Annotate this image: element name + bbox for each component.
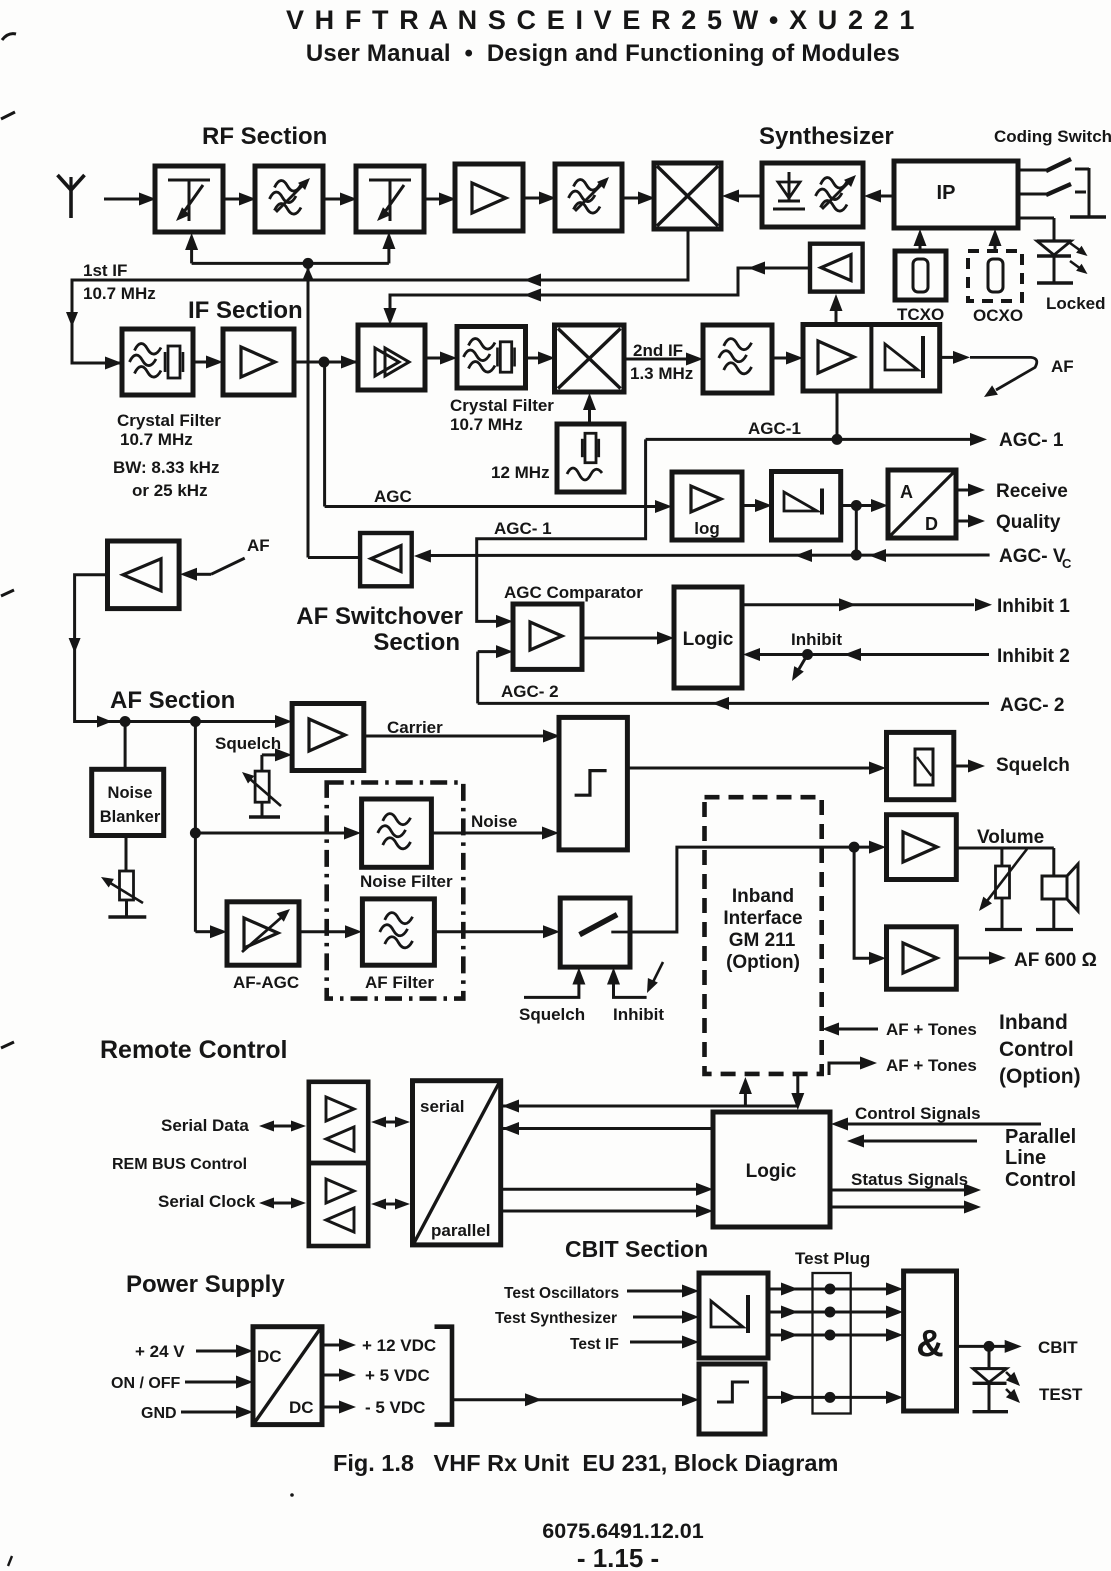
serial/parallel converter (413, 1081, 501, 1245)
junction dot volume branch (849, 842, 860, 853)
wire Test Synthesizer (633, 1311, 699, 1324)
svg-text:Control: Control (999, 1038, 1074, 1061)
wire AF-AGC to AF filter (299, 925, 362, 938)
wire crystal filter1 to IF amplifier (193, 356, 223, 369)
volume amplifier (887, 815, 957, 880)
synthesizer VCO block (varactor + tuned filter) (762, 163, 863, 227)
wire OCXO to IP (989, 229, 1002, 251)
label AGC- Vc (pin) (999, 546, 1072, 571)
svg-text:10.7 MHz: 10.7 MHz (120, 430, 193, 449)
remote logic block (713, 1112, 830, 1227)
svg-text:Inhibit: Inhibit (791, 630, 842, 649)
svg-text:AF + Tones: AF + Tones (886, 1020, 977, 1039)
svg-text:Carrier: Carrier (387, 718, 443, 737)
wire Quality output (956, 515, 985, 528)
wire AGC buffer output to trunk (308, 556, 360, 559)
label 1st IF (83, 261, 127, 280)
svg-text:or 25 kHz: or 25 kHz (132, 481, 208, 500)
label GND (141, 1405, 177, 1422)
inband interface GM 211 (dashed option box) (705, 797, 822, 1074)
ground (loudspeaker) (1036, 928, 1073, 931)
label AGC- 1 (comparator input) (494, 519, 552, 538)
svg-text:AF 600 Ω: AF 600 Ω (1014, 950, 1097, 971)
antenna (58, 175, 85, 218)
label GM 211 (729, 930, 796, 951)
RF amplifier (455, 164, 523, 231)
svg-text:Logic: Logic (683, 629, 734, 650)
wire RF bandpass to RF filter 2 (323, 193, 357, 206)
svg-text:DC: DC (289, 1398, 314, 1417)
wire Inhibit branch (792, 655, 808, 682)
AND gate (904, 1271, 957, 1411)
svg-text:Logic: Logic (746, 1161, 797, 1182)
wire 2nd IF filter to demodulator (772, 352, 803, 365)
label Inhibit (791, 630, 842, 649)
serial driver block A (309, 1082, 368, 1163)
svg-text:Synthesizer: Synthesizer (759, 123, 894, 150)
wire driver B to serial/parallel (371, 1199, 410, 1210)
svg-text:Test Oscillators: Test Oscillators (504, 1285, 619, 1302)
label Interface (723, 908, 802, 929)
label +24V (135, 1342, 185, 1361)
wire Serial Clock (bidirectional) (259, 1198, 306, 1209)
RF image bandpass filter (555, 164, 622, 231)
wire serial box line 4 (501, 1205, 713, 1218)
label +12 VDC (362, 1336, 436, 1355)
svg-text:Remote Control: Remote Control (100, 1036, 288, 1064)
test plug connector (813, 1273, 851, 1414)
serial driver block B (309, 1163, 368, 1246)
wire AF input to switchover buffer (180, 558, 245, 581)
svg-text:- 1.15 -: - 1.15 - (577, 1543, 659, 1571)
supply bracket (435, 1327, 453, 1425)
svg-text:Blanker: Blanker (100, 808, 161, 826)
page number (577, 1543, 659, 1571)
svg-text:AGC: AGC (374, 487, 412, 506)
label 10.7 MHz (filter 1) (120, 430, 193, 449)
wire GND input (181, 1406, 253, 1419)
label AGC (374, 487, 412, 506)
wire inhibit control to switch (607, 968, 647, 998)
svg-text:Noise: Noise (108, 784, 153, 802)
svg-text:IF Section: IF Section (188, 297, 303, 324)
wire demodulator AF output (940, 351, 1037, 397)
svg-text:Power Supply: Power Supply (126, 1271, 285, 1298)
IF double amplifier (358, 325, 425, 390)
svg-text:OCXO: OCXO (973, 306, 1023, 325)
wire +12VDC output (322, 1339, 356, 1352)
svg-text:Squelch: Squelch (996, 755, 1070, 776)
label Squelch (pot) (215, 734, 281, 753)
svg-text:C: C (1062, 556, 1072, 571)
label Serial Data (161, 1116, 249, 1135)
label Test Plug (795, 1249, 870, 1268)
microprocessor IP block (894, 161, 1018, 228)
label Crystal Filter 2 (450, 396, 554, 415)
label Inhibit 1 (pin) (997, 596, 1070, 617)
wire -5VDC output (322, 1401, 356, 1414)
svg-text:TCXO: TCXO (897, 305, 944, 324)
wire carrier output (364, 730, 560, 743)
label Squelch (switch) (519, 1005, 585, 1024)
svg-text:Noise: Noise (471, 812, 517, 831)
svg-text:AGC-1: AGC-1 (748, 419, 801, 438)
label AF output (1051, 357, 1074, 376)
label TEST (1039, 1385, 1083, 1404)
wire AF+Tones output (829, 1057, 877, 1076)
ground (TEST LED) (973, 1410, 1009, 1413)
label CBIT (pin) (1038, 1338, 1078, 1357)
svg-text:BW: 8.33 kHz: BW: 8.33 kHz (113, 458, 219, 477)
label Parallel (1005, 1126, 1076, 1148)
label 10.7 MHz (83, 284, 156, 303)
wire AF trunk vertical (194, 722, 197, 932)
wire +5VDC output (322, 1369, 356, 1382)
AF 600 ohm amplifier (887, 927, 957, 989)
wire image filter to 1st mixer (622, 192, 655, 205)
label Inband (732, 886, 794, 907)
AF mute switch (560, 898, 630, 967)
svg-text:Receive: Receive (996, 481, 1068, 502)
svg-text:AF + Tones: AF + Tones (886, 1056, 977, 1075)
section title Section (373, 629, 460, 656)
svg-text:AGC- 2: AGC- 2 (501, 682, 559, 701)
svg-text:serial: serial (420, 1097, 464, 1116)
wire IF amp1 to double amp (294, 356, 358, 369)
label AGC Comparator (504, 583, 643, 602)
section title RF Section (202, 123, 327, 150)
limiter (772, 472, 841, 541)
wire log amp to limiter (742, 499, 772, 512)
label Squelch (pin) (996, 755, 1070, 776)
wire AGC feedback to RF filters (185, 232, 395, 281)
wire +24V input (196, 1345, 253, 1358)
svg-text:DC: DC (257, 1347, 282, 1366)
label BW 8.33 kHz (113, 458, 219, 477)
coding switch contact 2 (1018, 184, 1086, 195)
squelch level potentiometer (242, 771, 281, 817)
wire trunk AGC buffer up to RF (307, 263, 310, 557)
noise blanker potentiometer (101, 838, 143, 917)
label AF (input) (247, 536, 270, 555)
label 2nd IF (633, 341, 683, 360)
label AF + Tones (in) (886, 1020, 977, 1039)
wire test line 3 (768, 1329, 903, 1342)
wire ON/OFF input (185, 1376, 253, 1389)
svg-text:Volume: Volume (977, 827, 1044, 848)
svg-text:Squelch: Squelch (215, 734, 281, 753)
svg-text:Parallel: Parallel (1005, 1126, 1076, 1148)
svg-text:(Option): (Option) (726, 952, 800, 973)
carrier amplifier (292, 704, 364, 771)
svg-text:AF Filter: AF Filter (365, 973, 434, 992)
svg-text:Serial Data: Serial Data (161, 1116, 249, 1135)
label Noise (471, 812, 517, 831)
svg-text:10.7 MHz: 10.7 MHz (83, 284, 156, 303)
OCXO option (dashed) (968, 251, 1022, 301)
label Line (1005, 1147, 1046, 1169)
svg-text:Test Plug: Test Plug (795, 1249, 870, 1268)
AGC logic block (674, 587, 742, 688)
title: VHF TRANSCEIVER 25 W XU 221 (286, 5, 916, 35)
ground (squelch pot) (249, 815, 280, 818)
svg-text:- 5 VDC: - 5 VDC (365, 1398, 425, 1417)
svg-text:AF: AF (1051, 357, 1074, 376)
junction dot Inhibit (802, 649, 813, 660)
svg-text:AF Section: AF Section (110, 687, 235, 714)
label Inhibit (switch) (613, 1005, 664, 1024)
label Test Oscillators (504, 1285, 619, 1302)
junction dot AGC-1 (832, 434, 843, 445)
svg-text:AGC- 2: AGC- 2 (1000, 695, 1064, 716)
svg-text:Inhibit: Inhibit (613, 1005, 664, 1024)
wire Test IF (630, 1336, 699, 1349)
label AGC- 2 (comparator) (501, 682, 559, 701)
label (Option) (control) (999, 1065, 1081, 1088)
test plug pin 1 (825, 1284, 836, 1295)
label Test IF (570, 1336, 619, 1353)
svg-text:10.7 MHz: 10.7 MHz (450, 415, 523, 434)
wire threshold to squelch detector (627, 762, 886, 775)
noise filter (362, 799, 432, 867)
section title AF Section (110, 687, 235, 714)
wire microprocessor to synthesizer (864, 190, 894, 203)
filter option frame (dash-dot) (327, 783, 464, 999)
svg-text:Crystal Filter: Crystal Filter (450, 396, 554, 415)
label Quality (996, 512, 1061, 533)
section title IF Section (188, 297, 303, 324)
svg-text:Section: Section (373, 629, 460, 656)
wire test line 2 (768, 1306, 903, 1319)
label ON/OFF (111, 1375, 181, 1392)
wire Status Signals 1 (830, 1184, 981, 1197)
wire AGC-2 to comparator (478, 645, 513, 703)
wire 12MHz oscillator to 2nd mixer (583, 393, 596, 424)
A/D converter (888, 470, 956, 538)
ground (volume pot) (985, 928, 1022, 931)
wire noise filter to threshold (431, 827, 559, 840)
svg-text:GM 211: GM 211 (729, 930, 796, 951)
wire RF filter1 to RF bandpass (223, 193, 256, 206)
2nd IF bandpass filter (703, 325, 772, 393)
wire crystal filter2 to 2nd mixer (526, 352, 556, 365)
wire IP to Locked LED (1018, 218, 1054, 241)
section title Remote Control (100, 1036, 288, 1064)
wire to AF-AGC (195, 925, 227, 938)
svg-text:IP: IP (937, 182, 956, 204)
svg-text:parallel: parallel (431, 1221, 491, 1240)
svg-text:AF: AF (247, 536, 270, 555)
label TCXO (897, 305, 944, 324)
wire 2nd mixer to 2nd IF filter (624, 353, 703, 366)
svg-text:+ 12 VDC: + 12 VDC (362, 1336, 436, 1355)
svg-text:AF Switchover: AF Switchover (296, 603, 463, 630)
label Coding Switch (994, 127, 1111, 146)
LED Locked indicator (1037, 241, 1088, 283)
wire Serial Data (bidirectional) (259, 1121, 306, 1132)
svg-text:Line: Line (1005, 1147, 1046, 1169)
test plug pin 2 (825, 1307, 836, 1318)
junction dot IF amp output (319, 357, 330, 368)
svg-text:CBIT Section: CBIT Section (565, 1236, 708, 1262)
wire RF filter2 to RF amplifier (424, 193, 456, 206)
wire 1st mixer to crystal filter (1st IF) (66, 229, 688, 370)
squelch detector (887, 732, 954, 799)
wire limiter to A/D (841, 499, 888, 512)
svg-text:Control Signals: Control Signals (855, 1104, 981, 1123)
wire to AF 600 amplifier (854, 847, 886, 965)
wire Inhibit 2 input (743, 648, 989, 661)
label Carrier (387, 718, 443, 737)
noise blanker (92, 769, 164, 835)
junction dot AF trunk 1 (120, 716, 131, 727)
wire AF 600 output (956, 952, 1006, 965)
svg-text:V H F T R A N S C E I V E R: V H F T R A N S C E I V E R 2 5 W • X U … (286, 5, 916, 35)
test step detector (699, 1364, 765, 1434)
wire to noise filter (195, 827, 361, 840)
section title Synthesizer (759, 123, 894, 150)
section title AF Switchover (296, 603, 463, 630)
label 1.3 MHz (630, 364, 693, 383)
label Control Signals (855, 1104, 981, 1123)
svg-text:Inband: Inband (999, 1011, 1068, 1034)
crystal filter 2 (10.7 MHz) (457, 327, 526, 389)
test plug pin 3 (825, 1330, 836, 1341)
wire CBIT output (957, 1340, 1022, 1353)
coding switch common rail (1070, 168, 1106, 217)
label Volume (977, 827, 1044, 848)
svg-text:12 MHz: 12 MHz (491, 463, 550, 482)
wire AF trunk to noise blanker (124, 722, 127, 770)
wire Test Oscillators (627, 1285, 699, 1298)
svg-text:+ 24 V: + 24 V (135, 1342, 185, 1361)
wire TCXO to IP (914, 229, 927, 251)
wire driver A to serial/parallel (371, 1117, 410, 1128)
svg-text:RF Section: RF Section (202, 123, 327, 150)
wire Control Signals 2 (847, 1135, 977, 1148)
wire Status Signals 2 (830, 1201, 981, 1214)
label Serial Clock (158, 1192, 256, 1211)
wire Squelch output (954, 760, 985, 773)
svg-text:GND: GND (141, 1405, 177, 1422)
label Status Signals (851, 1170, 968, 1189)
label Locked (1046, 294, 1106, 313)
AF-AGC variable gain amplifier (227, 902, 299, 965)
wire inband to serial line (501, 1100, 798, 1113)
wire AGC-2 (478, 697, 989, 710)
wire buffer to IF double amplifier (384, 262, 811, 326)
label OCXO (973, 306, 1023, 325)
svg-text:2nd IF: 2nd IF (633, 341, 683, 360)
wire AF filter to switch (434, 925, 560, 938)
wire AF+Tones input (822, 1023, 878, 1036)
label Control (control) (999, 1038, 1074, 1061)
junction dot CBIT (984, 1341, 995, 1352)
svg-text:Status Signals: Status Signals (851, 1170, 968, 1189)
svg-text:1.3 MHz: 1.3 MHz (630, 364, 693, 383)
caption Fig 1.8 (333, 1450, 838, 1476)
wire RF amplifier to image filter (523, 192, 556, 205)
svg-text:CBIT: CBIT (1038, 1338, 1078, 1357)
svg-text:1st IF: 1st IF (83, 261, 127, 280)
wire demodulator amp to buffer (830, 294, 843, 325)
wire squelch control to switch (524, 968, 585, 998)
svg-text:AGC- 1: AGC- 1 (999, 430, 1064, 451)
RF varactor-tuned filter 2 (356, 166, 424, 232)
document number (542, 1519, 703, 1543)
TCXO crystal oscillator (895, 251, 946, 300)
subtitle: User Manual Design and Functioning of Modules (306, 40, 900, 67)
label AF-AGC (233, 973, 299, 992)
wire AGC-1 branch to comparator (477, 439, 837, 628)
svg-text:AGC- 1: AGC- 1 (494, 519, 552, 538)
wire switchover buffer to AF trunk (69, 575, 292, 728)
IF amplifier 1 (223, 329, 294, 395)
label AGC- 2 (pin) (1000, 695, 1064, 716)
wire AGC-Vc (414, 506, 990, 563)
svg-text:TEST: TEST (1039, 1385, 1083, 1404)
label AGC- 1 (pin) (999, 430, 1064, 451)
label REM BUS Control (112, 1156, 247, 1173)
svg-text:(Option): (Option) (999, 1065, 1081, 1088)
svg-text:Inhibit 1: Inhibit 1 (997, 596, 1070, 617)
svg-text:Quality: Quality (996, 512, 1061, 533)
AF switchover buffer amplifier (108, 541, 180, 609)
2nd mixer (555, 325, 625, 392)
label AF 600 ohm (pin) (1014, 950, 1097, 971)
junction dot AF trunk 2 (190, 716, 201, 727)
wire test line 4 (765, 1391, 903, 1404)
volume potentiometer (979, 848, 1027, 929)
svg-text:Noise Filter: Noise Filter (360, 872, 453, 891)
svg-text:Inband: Inband (732, 886, 794, 907)
svg-text:A: A (900, 482, 913, 502)
wire AGC-1 from demodulator (836, 391, 839, 439)
wire inband up branch (739, 1077, 752, 1106)
label Inband (control) (999, 1011, 1068, 1034)
wire serial box line 3 (501, 1183, 713, 1196)
wire AGC-1 to output (837, 433, 987, 446)
wire squelch pot to carrier amp (262, 748, 292, 771)
label 10.7 MHz (filter 2) (450, 415, 523, 434)
svg-text:6075.6491.12.01: 6075.6491.12.01 (542, 1519, 703, 1543)
svg-text:+ 5 VDC: + 5 VDC (365, 1366, 430, 1385)
RF tunable bandpass filter (255, 166, 323, 232)
wire supply to CBIT step detector (452, 1393, 699, 1406)
IF amplifier + demodulator block (803, 325, 940, 392)
AGC comparator (513, 604, 582, 669)
wire Receive output (956, 484, 985, 497)
svg-text:Locked: Locked (1046, 294, 1106, 313)
logarithmic amplifier (672, 472, 742, 540)
loudspeaker (1042, 848, 1078, 929)
wire inband down branch to logic (791, 1074, 804, 1110)
svg-text:Inhibit 2: Inhibit 2 (997, 646, 1070, 667)
svg-text:&: & (916, 1323, 943, 1365)
wire comparator to logic (582, 632, 674, 645)
section title Power Supply (126, 1271, 285, 1298)
svg-text:REM BUS Control: REM BUS Control (112, 1156, 247, 1173)
svg-text:AGC Comparator: AGC Comparator (504, 583, 643, 602)
svg-text:Test IF: Test IF (570, 1336, 619, 1353)
junction dot AGC-Vc (851, 550, 862, 561)
svg-text:AGC- V: AGC- V (999, 546, 1066, 567)
ground (noise blanker) (108, 915, 146, 918)
test limiter block (699, 1273, 768, 1358)
label AGC-1 (internal) (748, 419, 801, 438)
svg-text:Fig. 1.8 VHF Rx Unit EU 231: Fig. 1.8 VHF Rx Unit EU 231, Block Diagr… (333, 1450, 838, 1476)
svg-text:AF-AGC: AF-AGC (233, 973, 299, 992)
